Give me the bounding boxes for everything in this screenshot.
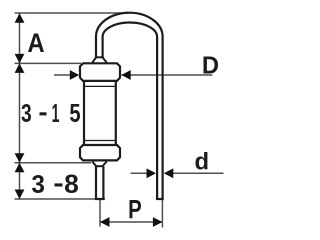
wire: extension line at lead end (3-8 lower reference) [15, 198, 106, 200]
left lead below body left line [95, 166, 97, 199]
bottom cap band thin line [84, 140, 116, 142]
bottom flare bar [95, 165, 104, 167]
wire: d dimension line right part [173, 172, 224, 174]
body right side [115, 81, 117, 145]
dimension arrow right (tip at cap left edge) [70, 70, 80, 80]
left lead bottom end bar [95, 198, 105, 200]
right lead bottom end bar [156, 198, 164, 200]
wire: P dimension line [100, 221, 162, 223]
left lead below body right line [102, 166, 104, 199]
label A [28, 33, 44, 52]
label 3-15 hyphen [40, 112, 47, 115]
wire: D dimension line [122, 74, 213, 76]
dimension 3-15 arrow up [15, 63, 25, 73]
top lead flare (trapezoid) [92, 58, 107, 63]
wire: extension line at cap top (A lower / 3-15 upper reference) [15, 62, 82, 64]
bottom cap octagon [80, 145, 120, 160]
top cap band thin line [84, 85, 116, 87]
label P [130, 200, 141, 218]
dimension P arrow right [153, 217, 163, 227]
wire: extension line at cap bottom (3-15 lower / 3-8 upper reference) [15, 162, 92, 164]
wire: extension line below right lead [161, 200, 163, 228]
dimension A arrow up [15, 13, 25, 23]
label 3-8 digit 8 [65, 175, 78, 194]
wire: left vertical dimension line [19, 13, 21, 199]
dimension P arrow left [100, 217, 110, 227]
dimension D arrow left (tip at cap right edge) [121, 70, 131, 80]
dimension 3-8 arrow up [15, 163, 25, 173]
dimension 3-15 arrow down [15, 153, 25, 163]
bottom lead flare (trapezoid) [92, 162, 107, 167]
label 3-8 hyphen [55, 183, 63, 186]
wire: pointer line to cap left edge [54, 74, 71, 76]
body left side [83, 81, 85, 145]
label D [204, 57, 219, 74]
dimension 3-8 arrow down [15, 190, 25, 200]
dimension d arrow right (tip at lead left edge) [147, 168, 157, 178]
label 3-15 digit 3 [22, 104, 31, 122]
dimension A arrow down [15, 54, 25, 64]
label 3-15 digit 5 [70, 104, 80, 122]
label 3-8 digit 3 [32, 175, 44, 193]
wire: extension line below left lead [99, 200, 101, 227]
label 3-15 digit 1 [53, 104, 60, 122]
lead top end bar [95, 56, 104, 58]
label d [196, 152, 208, 170]
lead bent wire outer contour [96, 13, 163, 199]
dimension d arrow left (tip at lead right edge) [164, 168, 174, 178]
wire: extension line top (A upper reference) [15, 12, 130, 14]
top cap octagon [80, 63, 120, 81]
lead bent wire inner contour [103, 22, 158, 199]
wire: d dimension line left part [131, 172, 148, 174]
